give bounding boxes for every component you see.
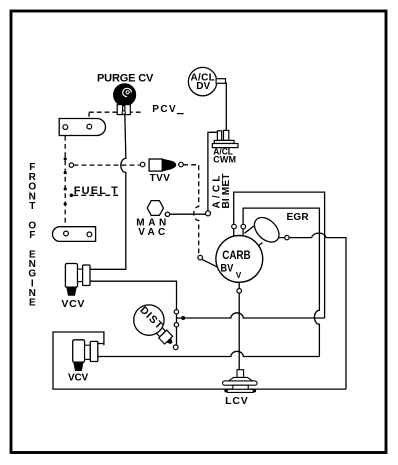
svg-text:BI MET: BI MET (221, 174, 232, 209)
svg-text:CWM: CWM (213, 155, 236, 165)
svg-text:CARB: CARB (222, 248, 251, 262)
svg-text:PURGE CV: PURGE CV (97, 72, 154, 84)
svg-text:TVV: TVV (150, 173, 171, 184)
svg-text:VCV: VCV (61, 298, 84, 310)
svg-text:LCV: LCV (225, 395, 248, 407)
svg-text:E: E (29, 298, 36, 309)
svg-text:BV: BV (220, 263, 233, 275)
svg-text:VCV: VCV (68, 372, 89, 383)
svg-text:FUEL T: FUEL T (74, 185, 118, 197)
svg-text:F: F (29, 230, 35, 241)
svg-text:PCV: PCV (152, 104, 176, 115)
svg-text:VAC: VAC (138, 227, 165, 238)
svg-text:V: V (236, 271, 242, 280)
svg-text:EGR: EGR (287, 212, 310, 223)
svg-text:T: T (29, 201, 35, 212)
svg-text:DV: DV (196, 81, 210, 92)
